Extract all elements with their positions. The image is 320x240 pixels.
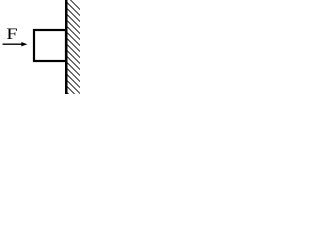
svg-text:F: F (6, 25, 17, 42)
block (34, 30, 66, 61)
force arrow wire (3, 43, 23, 45)
wall line (65, 0, 68, 94)
force arrow head (21, 42, 27, 46)
wall hatching (67, 0, 82, 107)
